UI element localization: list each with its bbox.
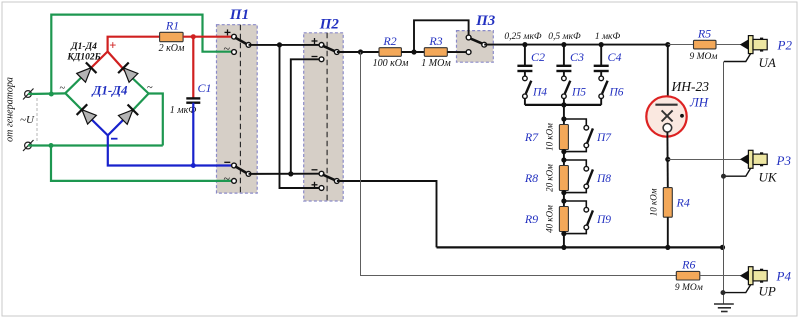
svg-text:~: ~ [147, 83, 153, 94]
svg-text:П8: П8 [596, 173, 611, 185]
node AC2 junction [49, 143, 54, 148]
dashed U measure line [36, 98, 38, 142]
svg-text:P2: P2 [777, 38, 793, 53]
svg-text:~: ~ [60, 83, 66, 94]
switch П6 [599, 76, 608, 105]
node red C1 tap [191, 34, 196, 39]
label − П2 bottom [312, 169, 318, 171]
svg-text:0,5 мкФ: 0,5 мкФ [548, 32, 581, 42]
lamp ИН-23 [646, 96, 686, 136]
svg-text:П3: П3 [475, 13, 496, 29]
wire П2 common to R2 [337, 51, 379, 53]
node rail R4 [665, 245, 670, 250]
node C2 top [522, 42, 527, 47]
resistor R3 [424, 48, 447, 57]
П2 contact + bottom [319, 186, 324, 191]
svg-text:R3: R3 [428, 34, 442, 48]
label + П2 top [312, 38, 318, 44]
node AC1 junction [49, 92, 54, 97]
svg-text:100 кОм: 100 кОм [373, 58, 409, 69]
wire R3 to П3 lower contact [447, 51, 466, 53]
svg-text:~U: ~U [20, 114, 35, 126]
П2 common bottom [334, 179, 339, 184]
П2 contact − bottom [319, 171, 324, 176]
switch block box П1 [217, 25, 258, 193]
wire bridge right-top segment [108, 52, 149, 94]
svg-text:R5: R5 [697, 27, 711, 41]
wire blue bridge bottom to П1 − [108, 135, 232, 165]
terminal X2 (generator bottom) [23, 140, 34, 151]
resistor R8 [559, 166, 568, 191]
wire green AC1 loop to П1 top ~ [51, 15, 232, 94]
resistor R4 [663, 188, 672, 218]
node at П1 bottom common wire [288, 171, 293, 176]
resistor R5 [694, 40, 717, 49]
wire lamp feed [667, 45, 669, 105]
resistor R9 [559, 207, 568, 232]
svg-text:10 кОм: 10 кОм [649, 188, 659, 216]
label − bridge [111, 138, 118, 140]
svg-text:0,25 мкФ: 0,25 мкФ [504, 32, 542, 42]
П1 contact + [232, 34, 237, 39]
svg-text:R9: R9 [524, 212, 538, 226]
svg-text:~: ~ [224, 171, 231, 185]
svg-text:П7: П7 [596, 132, 612, 144]
wire gray P3 branch [668, 159, 741, 161]
node branch at 279 [277, 42, 282, 47]
wire bottom rail [437, 246, 723, 248]
svg-text:C2: C2 [531, 50, 545, 64]
switch П9 [561, 198, 593, 236]
П2 switch arm bottom [323, 175, 336, 181]
wire П2 bottom common Z to bottom rail [337, 181, 437, 247]
diode D4 (bottom-right) [118, 105, 139, 126]
switch block box П3 [457, 31, 494, 63]
resistor R7 [559, 125, 568, 150]
svg-text:C3: C3 [570, 50, 584, 64]
switch П5 [562, 76, 571, 105]
capacitor C4 [594, 45, 609, 77]
resistor R6 [676, 271, 700, 280]
wire П2 top − to lower rail junction [291, 59, 319, 174]
svg-text:П2: П2 [319, 17, 340, 33]
label − П1 bottom [224, 161, 230, 163]
svg-text:R4: R4 [676, 196, 690, 210]
node P4 sleeve junction [721, 290, 726, 295]
wire R2 to R3 [401, 51, 424, 53]
svg-text:Д1-Д4: Д1-Д4 [70, 42, 97, 52]
svg-text:+: + [109, 38, 116, 52]
wire branch down to П2 bottom + [280, 45, 320, 188]
connector P2 [724, 36, 767, 62]
svg-text:ЛН: ЛН [689, 95, 709, 110]
wire bridge bottom-right segment [108, 94, 149, 136]
П1 switch arm bottom [235, 166, 247, 173]
wire gray R6 branch from П2 common tap [361, 52, 677, 276]
svg-text:P4: P4 [776, 269, 792, 284]
node C3 top [561, 42, 566, 47]
svg-text:П4: П4 [532, 87, 547, 99]
svg-text:П9: П9 [596, 214, 611, 226]
svg-text:40 кОм: 40 кОм [545, 205, 555, 233]
П3 contact bottom [466, 50, 471, 55]
wire gray R6 to P4 [700, 275, 741, 277]
wire gray R5 branch [668, 44, 694, 46]
П1 common bottom [246, 172, 251, 177]
svg-text:П5: П5 [571, 87, 586, 99]
wire green AC2 terminal to riser [28, 144, 163, 146]
svg-text:C4: C4 [608, 50, 622, 64]
wire blue C1 to minus rail [192, 103, 194, 166]
node blue junction [191, 163, 196, 168]
wire bridge left-top segment [65, 52, 107, 94]
П1 contact − bottom [232, 163, 237, 168]
svg-text:~: ~ [224, 41, 231, 55]
svg-text:20 кОм: 20 кОм [545, 164, 555, 192]
svg-text:КД102Б: КД102Б [66, 53, 100, 63]
svg-text:9 МОм: 9 МОм [675, 283, 703, 293]
node bypass tap [411, 49, 416, 54]
wire red C1 lead [192, 37, 194, 98]
svg-text:UA: UA [759, 55, 776, 70]
switch П7 [561, 116, 593, 154]
wire gray R5 to P2 [716, 44, 741, 46]
svg-text:П1: П1 [229, 7, 249, 23]
resistor R1 [160, 32, 184, 41]
wire П1 bottom common to П2 bottom − [249, 173, 320, 175]
svg-text:2 кОм: 2 кОм [159, 43, 185, 54]
wire capacitor bottom rail [525, 104, 601, 106]
wire П1 common to П2 + [249, 44, 320, 46]
svg-text:R2: R2 [382, 34, 396, 48]
wire green AC1 terminal to bridge left node [28, 92, 65, 95]
wire red bridge top to R1 to П1 + [108, 37, 160, 52]
diode D1 (top-left) [76, 62, 97, 83]
svg-text:Д1-Д4: Д1-Д4 [91, 83, 128, 98]
svg-text:10 кОм: 10 кОм [545, 123, 555, 151]
svg-text:от генератора: от генератора [5, 77, 16, 142]
П1 contact ~ top [232, 50, 237, 55]
resistor R2 [379, 48, 401, 57]
capacitor C1 [186, 98, 200, 102]
svg-text:R1: R1 [165, 19, 179, 33]
wire top rail П3 to lamp junction [484, 44, 668, 46]
node lamp junction [665, 42, 670, 47]
wire red R1 to П1 [183, 36, 232, 38]
terminal X1 (generator top) [23, 89, 34, 100]
ground [714, 304, 734, 312]
svg-text:R6: R6 [681, 258, 695, 272]
node R6 tap [358, 49, 363, 54]
switch block box П2 [304, 33, 344, 201]
capacitor C2 [517, 45, 532, 77]
svg-text:C1: C1 [198, 81, 212, 95]
wire bypass over R3 to П3 [414, 20, 469, 52]
node P3 sleeve junction [721, 174, 726, 179]
node rail ground column [720, 245, 725, 250]
label + П1 [225, 29, 231, 35]
П1 switch arm top [235, 38, 247, 45]
node C4 top [599, 42, 604, 47]
switch П8 [561, 157, 593, 195]
wire R-chain column [563, 105, 565, 248]
wire gray ground column [723, 62, 725, 305]
wire R4 to rail [667, 217, 669, 247]
diode D3 (bottom-left) [77, 104, 98, 125]
wire lamp to R4 [666, 132, 668, 188]
П2 contact − top [319, 57, 324, 62]
П1 common top [246, 43, 251, 48]
connector P4 [723, 267, 768, 293]
svg-text:UP: UP [759, 284, 776, 299]
svg-text:ИН-23: ИН-23 [671, 79, 710, 94]
П1 contact ~ bottom [232, 179, 237, 184]
node P3 tap [665, 157, 670, 162]
svg-text:П6: П6 [609, 87, 624, 99]
П2 switch arm top [323, 46, 336, 52]
svg-text:P3: P3 [776, 153, 792, 168]
svg-text:1 мкФ: 1 мкФ [595, 32, 621, 42]
node cap rail to R7 [561, 102, 566, 107]
svg-text:R8: R8 [524, 171, 538, 185]
П2 contact + top [319, 43, 324, 48]
label + П2 bottom [312, 182, 318, 188]
svg-text:9 МОм: 9 МОм [690, 52, 718, 62]
capacitor C3 [556, 45, 571, 77]
switch П4 [523, 76, 532, 105]
wire bridge bottom-left segment [65, 93, 108, 135]
wire green AC2 to П1 bottom ~ [51, 146, 232, 181]
svg-text:1 МОм: 1 МОм [421, 58, 451, 69]
П3 common [482, 42, 487, 47]
connector P3 [724, 150, 767, 176]
label − П2 top [312, 56, 318, 58]
node rail R9 [561, 245, 566, 250]
П3 switch arm [471, 39, 483, 44]
svg-text:UK: UK [759, 170, 778, 185]
wire green riser to bridge right node [149, 94, 163, 146]
svg-text:R7: R7 [524, 130, 539, 144]
П2 common top [334, 50, 339, 55]
diode D2 (top-right) [118, 63, 139, 84]
П3 contact top [466, 35, 471, 40]
